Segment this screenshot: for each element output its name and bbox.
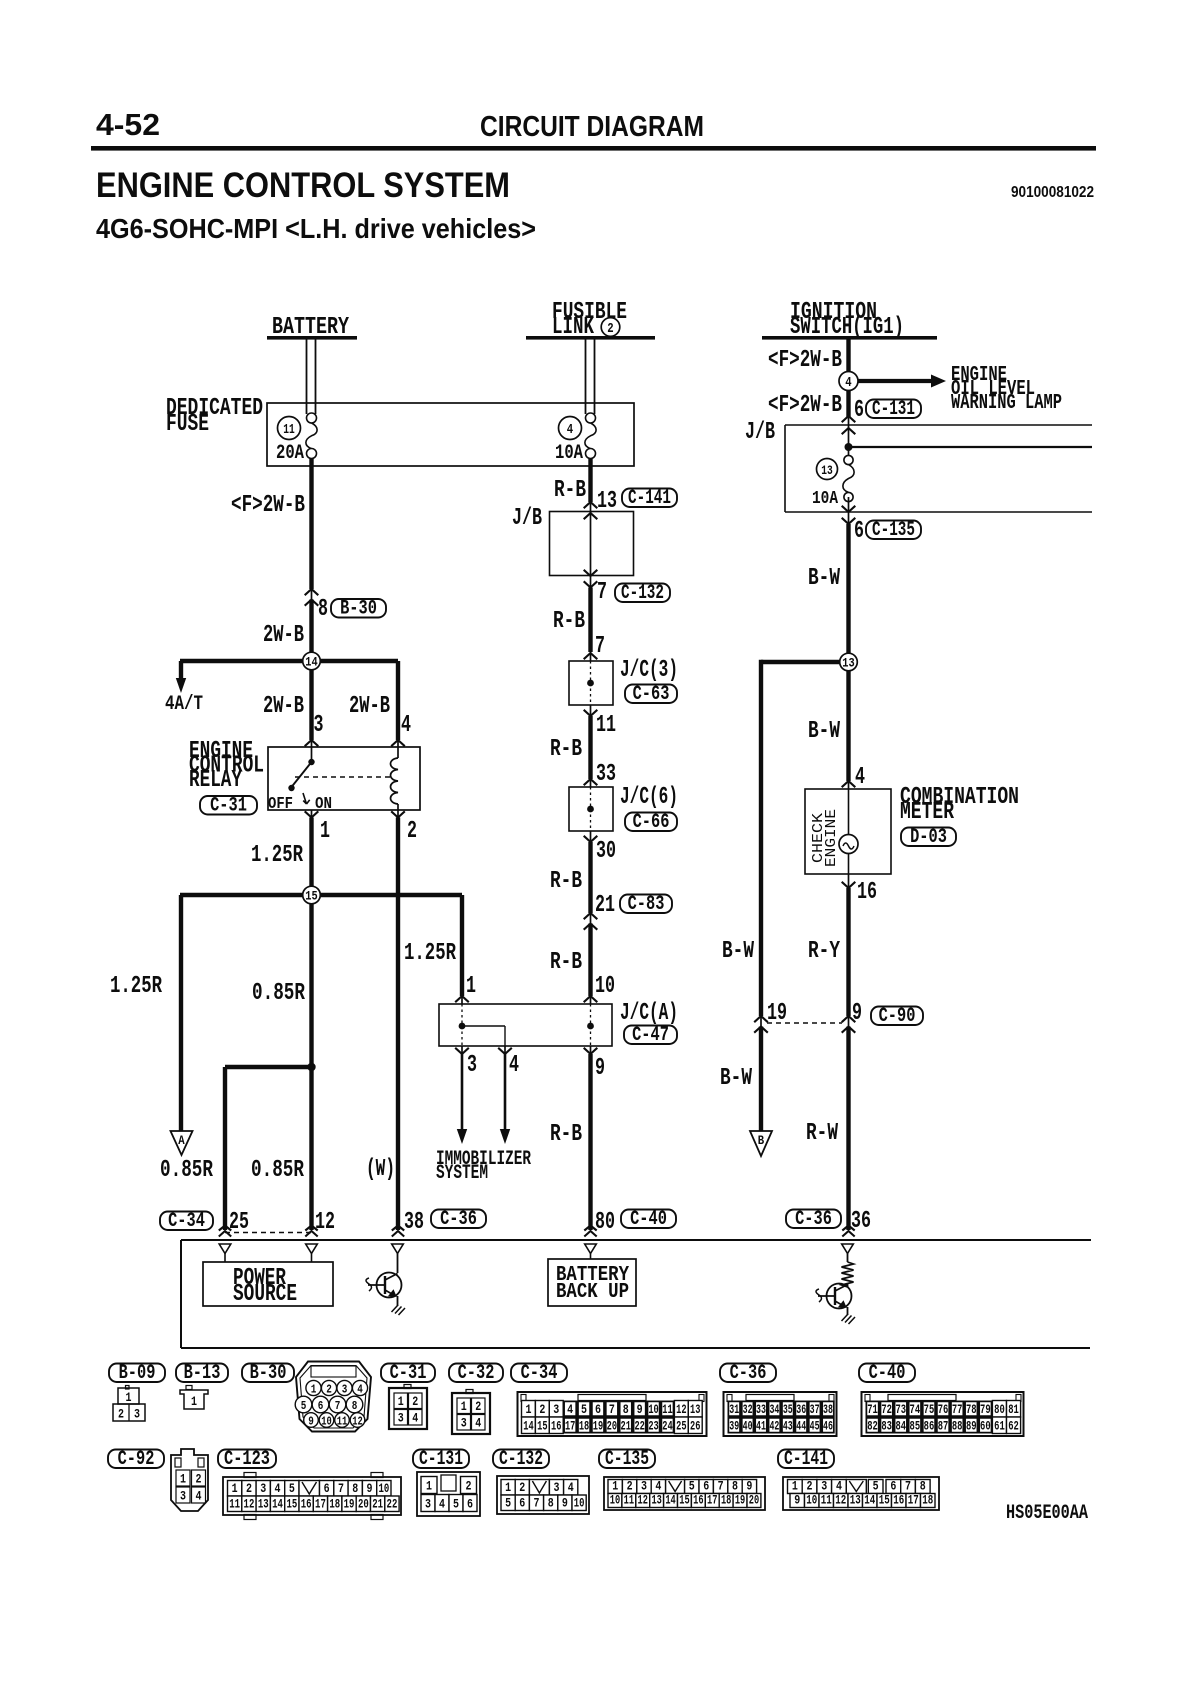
connector C-131 reference [413,1450,469,1469]
connector B-30 pinout [296,1362,371,1432]
svg-text:13: 13 [651,1493,662,1508]
svg-text:13: 13 [850,1493,861,1508]
svg-text:5: 5 [505,1496,511,1511]
svg-text:13: 13 [842,656,855,671]
svg-text:89: 89 [966,1419,977,1434]
svg-text:A: A [178,1133,185,1148]
svg-text:2: 2 [475,1399,481,1414]
svg-text:38: 38 [823,1402,833,1417]
svg-text:0.85R: 0.85R [251,1157,304,1184]
joint connector J/C(3) C-63 [584,653,598,659]
svg-text:18: 18 [721,1493,732,1508]
svg-text:R-B: R-B [550,949,582,976]
wire 2W-B: fuse 11 to node 14 [309,458,313,589]
svg-text:77: 77 [952,1402,963,1417]
wire 1.25R node 15 to triangle A [179,895,183,1131]
wire to 4A/T with arrow [179,661,183,678]
svg-text:4: 4 [275,1481,281,1496]
svg-text:1: 1 [461,1399,467,1414]
svg-text:C-32: C-32 [458,1362,495,1385]
svg-text:2W-B: 2W-B [349,693,390,720]
ground (pin 38 emitter) [392,1305,406,1315]
connector C-92 pinout [171,1449,208,1511]
svg-text:4: 4 [855,764,865,791]
connector C-32 pinout [466,1390,473,1394]
power source block [224,1254,226,1263]
svg-text:3: 3 [314,712,324,739]
svg-text:90100081022: 90100081022 [1011,184,1094,201]
svg-text:20: 20 [749,1493,760,1508]
svg-text:8: 8 [318,596,328,623]
svg-text:(W): (W) [366,1156,395,1183]
svg-text:42: 42 [769,1419,779,1434]
svg-text:20A: 20A [276,442,304,465]
svg-text:7: 7 [609,1402,615,1417]
wire B-W node 13 to combination meter pin 4 [846,662,850,781]
wire 0.85R branch to ECU pin 25 [223,1067,227,1230]
node 14 [303,652,321,670]
wire B-W: C-135 to node 13 [848,512,850,524]
svg-text:13: 13 [690,1402,701,1417]
svg-text:41: 41 [756,1419,766,1434]
svg-text:C-31: C-31 [210,794,247,817]
connector C-132 reference [493,1450,549,1469]
svg-text:1: 1 [426,1479,432,1494]
wire 1.25R relay pin 2 down to ECU pin 38 [397,810,399,818]
inline connector B-30 pin 8 [305,589,319,595]
svg-text:12: 12 [244,1497,255,1512]
svg-text:7: 7 [718,1479,724,1494]
svg-text:9: 9 [308,1415,314,1429]
svg-text:R-B: R-B [553,608,585,635]
svg-text:1: 1 [612,1479,618,1494]
svg-text:5: 5 [301,1399,307,1413]
svg-text:76: 76 [938,1402,949,1417]
svg-text:10A: 10A [555,442,583,465]
connector C-141 reference [778,1450,834,1469]
svg-text:3: 3 [461,1416,467,1431]
svg-text:1: 1 [466,973,476,1000]
connector C-131 pinout [417,1472,480,1516]
svg-text:4: 4 [567,1402,573,1417]
svg-text:J/B: J/B [745,419,775,446]
svg-text:B-09: B-09 [119,1362,156,1385]
svg-text:86: 86 [924,1419,935,1434]
svg-text:40: 40 [743,1419,753,1434]
node 15 [303,886,321,904]
svg-text:4: 4 [836,1479,842,1494]
svg-text:8: 8 [352,1399,358,1413]
svg-text:5: 5 [453,1497,459,1512]
svg-text:2: 2 [118,1407,124,1422]
svg-text:2: 2 [196,1472,202,1487]
svg-text:4: 4 [412,1411,418,1426]
svg-text:C-135: C-135 [872,519,915,542]
connector C-135 pinout [604,1477,765,1510]
svg-text:CIRCUIT DIAGRAM: CIRCUIT DIAGRAM [480,111,704,143]
svg-text:17: 17 [707,1493,717,1508]
connector C-141 pinout [783,1477,939,1510]
svg-text:METER: METER [900,799,954,826]
svg-text:0.85R: 0.85R [160,1157,213,1184]
svg-text:7: 7 [597,579,607,606]
svg-text:6: 6 [595,1402,601,1417]
wire B-W branch down to C-90 pin 19 [759,660,763,1016]
svg-text:C-141: C-141 [628,487,671,510]
svg-text:5: 5 [689,1479,695,1494]
svg-text:3: 3 [342,1383,348,1397]
svg-text:2: 2 [246,1481,252,1496]
svg-text:C-36: C-36 [730,1362,767,1385]
svg-text:C-92: C-92 [118,1448,155,1471]
svg-text:SOURCE: SOURCE [233,1281,297,1308]
svg-text:4: 4 [845,375,851,391]
svg-text:9: 9 [794,1493,800,1508]
svg-text:4: 4 [196,1489,202,1504]
connector C-132 pinout [497,1476,589,1514]
svg-text:61: 61 [994,1419,1005,1434]
svg-text:81: 81 [1008,1402,1019,1417]
svg-text:2: 2 [607,321,613,337]
ground (pin 36 emitter) [842,1314,856,1324]
svg-text:5: 5 [581,1402,587,1417]
wire 2W-B node 14 to relay pin 4 [396,661,400,740]
svg-text:84: 84 [895,1419,906,1434]
svg-text:8: 8 [732,1479,738,1494]
svg-text:46: 46 [823,1419,833,1434]
svg-text:10: 10 [610,1493,621,1508]
svg-text:9: 9 [746,1479,752,1494]
svg-text:37: 37 [810,1402,820,1417]
svg-text:13: 13 [821,463,833,478]
svg-text:14: 14 [864,1493,875,1508]
svg-text:SYSTEM: SYSTEM [436,1162,488,1185]
svg-text:16: 16 [693,1493,704,1508]
svg-text:2: 2 [466,1479,472,1494]
svg-text:82: 82 [867,1419,878,1434]
connector C-31 reference [381,1364,435,1383]
relay exit chevrons [305,811,319,817]
meter exit pin 16 [842,882,856,888]
svg-text:87: 87 [938,1419,949,1434]
svg-text:4: 4 [567,422,573,438]
wire 0.85R node 15 down to ECU pin 12 [309,895,313,1230]
svg-text:23: 23 [648,1419,659,1434]
svg-text:J/B: J/B [512,505,542,532]
ECU bottom connector labels [160,1212,213,1231]
svg-text:2: 2 [326,1383,332,1397]
node 13 [761,660,849,664]
svg-text:4A/T: 4A/T [165,693,203,716]
svg-text:1: 1 [398,1394,404,1409]
svg-text:72: 72 [881,1402,892,1417]
svg-text:1.25R: 1.25R [110,973,162,1000]
svg-text:C-132: C-132 [621,582,664,605]
transistor Q2 (pin 36 lamp driver) [847,1283,849,1285]
svg-text:15: 15 [537,1419,548,1434]
svg-text:C-63: C-63 [633,683,670,706]
connector C-31 pinout [404,1385,411,1389]
svg-text:8: 8 [352,1481,358,1496]
svg-text:30: 30 [596,838,616,865]
svg-text:14: 14 [305,655,318,670]
svg-text:18: 18 [329,1497,340,1512]
wire R-B: J/C(3) to J/C(6) [590,705,592,716]
connector C-36 pinout [724,1392,837,1436]
svg-text:B-W: B-W [722,938,754,965]
svg-text:R-Y: R-Y [808,938,840,965]
relay coil [397,747,399,758]
svg-text:7: 7 [335,1399,341,1413]
svg-text:34: 34 [769,1402,779,1417]
svg-text:WARNING LAMP: WARNING LAMP [951,392,1062,415]
svg-text:26: 26 [690,1419,701,1434]
svg-text:OFF: OFF [268,795,293,814]
svg-text:11: 11 [229,1497,240,1512]
svg-text:12: 12 [835,1493,846,1508]
svg-text:R-W: R-W [806,1120,838,1147]
svg-text:60: 60 [980,1419,991,1434]
svg-text:C-36: C-36 [795,1208,832,1231]
svg-text:11: 11 [596,712,616,739]
svg-text:24: 24 [662,1419,673,1434]
svg-text:38: 38 [404,1209,424,1236]
svg-text:8: 8 [623,1402,629,1417]
svg-text:19: 19 [593,1419,604,1434]
svg-text:4: 4 [475,1416,481,1431]
relay switch contact [311,747,313,762]
connector C-34 pinout [518,1392,707,1436]
svg-text:R-B: R-B [550,868,582,895]
svg-text:12: 12 [638,1493,649,1508]
svg-text:C-34: C-34 [521,1362,558,1385]
svg-text:R-B: R-B [550,1121,582,1148]
svg-text:1: 1 [505,1480,511,1495]
svg-text:3: 3 [134,1407,140,1422]
connector C-123 pinout [223,1477,401,1515]
svg-text:6: 6 [318,1399,324,1413]
svg-text:5: 5 [289,1481,295,1496]
svg-text:J/C(6): J/C(6) [620,784,678,811]
svg-text:21: 21 [621,1419,632,1434]
fuse 11 20A [278,417,301,440]
svg-text:33: 33 [756,1402,766,1417]
svg-text:4: 4 [655,1479,661,1494]
svg-text:74: 74 [910,1402,921,1417]
svg-text:11: 11 [624,1493,635,1508]
svg-text:83: 83 [881,1419,892,1434]
svg-text:11: 11 [337,1415,348,1429]
svg-text:11: 11 [283,422,295,438]
battery back up block [590,1254,592,1260]
svg-text:C-132: C-132 [499,1448,543,1471]
svg-text:C-131: C-131 [419,1448,463,1471]
svg-text:45: 45 [810,1419,820,1434]
svg-text:C-34: C-34 [168,1210,205,1233]
svg-text:3: 3 [398,1411,404,1426]
node 13 (right) [840,653,858,671]
svg-text:1: 1 [126,1390,132,1405]
wire R-B: J/C(A) pin 9 to ECU pin 80 [590,1046,592,1054]
joint connector J/C(A) C-47 [439,1004,612,1046]
svg-text:17: 17 [565,1419,575,1434]
svg-text:14: 14 [665,1493,676,1508]
svg-text:1.25R: 1.25R [251,842,303,869]
svg-text:2: 2 [519,1480,525,1495]
svg-text:11: 11 [821,1493,832,1508]
svg-text:1: 1 [525,1402,531,1417]
svg-text:33: 33 [596,761,616,788]
svg-text:2: 2 [539,1402,545,1417]
svg-text:71: 71 [867,1402,878,1417]
connector C-40 pinout [862,1392,1024,1436]
svg-text:6: 6 [467,1497,473,1512]
connector C-123 reference [218,1450,276,1469]
svg-text:9: 9 [637,1402,643,1417]
svg-text:7: 7 [338,1481,344,1496]
svg-text:43: 43 [783,1419,793,1434]
svg-text:1: 1 [232,1481,238,1496]
svg-text:88: 88 [952,1419,963,1434]
arrows to immobilizer system [461,1046,463,1054]
svg-text:1: 1 [311,1383,317,1397]
wire R-B: fuse 4 down to J/B C-141 [588,458,592,502]
joint connector J/C(6) C-66 [584,779,598,785]
svg-text:2W-B: 2W-B [263,693,304,720]
svg-text:RELAY: RELAY [189,767,242,794]
connector B-09 pinout [126,1386,130,1390]
svg-text:14: 14 [272,1497,283,1512]
svg-text:16: 16 [893,1493,904,1508]
svg-text:4G6-SOHC-MPI <L.H. drive vehic: 4G6-SOHC-MPI <L.H. drive vehicles> [96,213,536,244]
svg-text:3: 3 [554,1480,560,1495]
svg-text:32: 32 [743,1402,753,1417]
svg-text:3: 3 [641,1479,647,1494]
junction to pin 25 branch [307,1063,315,1071]
svg-text:9: 9 [852,1000,862,1027]
wire: battery double lead down to fuse 11 [306,339,308,414]
wire R-B: J/C(6) to C-83 [590,831,592,842]
svg-text:13: 13 [258,1497,269,1512]
svg-text:C-141: C-141 [784,1448,828,1471]
wire: node 15 horizontal bus [180,893,462,897]
connector B-09 reference [109,1364,165,1383]
wire 1.25R relay pin 1 to node 15 [311,810,313,818]
svg-text:<F>2W-B: <F>2W-B [231,492,305,519]
svg-text:9: 9 [367,1481,373,1496]
svg-text:15: 15 [679,1493,690,1508]
svg-text:20: 20 [607,1419,618,1434]
svg-text:39: 39 [729,1419,739,1434]
connector C-34 reference [511,1364,567,1383]
svg-text:80: 80 [595,1209,615,1236]
svg-text:J/C(3): J/C(3) [620,657,678,684]
svg-text:C-83: C-83 [628,893,665,916]
svg-text:C-47: C-47 [632,1024,669,1047]
connector B-30 reference [242,1364,294,1383]
svg-text:31: 31 [729,1402,739,1417]
wire: ignition switch feed down [846,339,850,417]
ECU pin input triangles [219,1244,231,1254]
svg-text:C-40: C-40 [630,1208,667,1231]
svg-text:C-90: C-90 [879,1005,916,1028]
wire: node 14 horizontal bus [180,659,398,663]
svg-text:<F>2W-B: <F>2W-B [768,392,842,419]
svg-text:1: 1 [191,1394,197,1409]
svg-text:62: 62 [1008,1419,1019,1434]
check engine lamp bulb [839,835,858,854]
wire: fusible link double lead down to fuse 4 [585,339,587,414]
svg-text:2: 2 [627,1479,633,1494]
svg-text:78: 78 [966,1402,977,1417]
svg-text:14: 14 [523,1419,534,1434]
svg-text:2: 2 [807,1479,813,1494]
svg-text:9: 9 [562,1496,568,1511]
svg-text:75: 75 [924,1402,935,1417]
svg-text:9: 9 [595,1055,605,1082]
svg-text:C-131: C-131 [872,398,915,421]
svg-text:6: 6 [519,1496,525,1511]
connector C-135 reference [599,1450,655,1469]
svg-text:6: 6 [703,1479,709,1494]
svg-text:7: 7 [534,1496,540,1511]
svg-text:17: 17 [908,1493,919,1508]
svg-text:C-36: C-36 [440,1208,477,1231]
svg-text:6: 6 [890,1479,896,1494]
svg-text:C-66: C-66 [633,811,670,834]
wire R-Y: meter to C-90 pin 9 [848,874,850,888]
svg-text:1: 1 [792,1479,798,1494]
svg-text:1.25R: 1.25R [404,940,456,967]
svg-text:BACK UP: BACK UP [556,1281,629,1304]
svg-text:36: 36 [796,1402,806,1417]
svg-text:6: 6 [854,518,864,545]
svg-text:B-W: B-W [808,718,840,745]
svg-text:8: 8 [548,1496,554,1511]
svg-text:FUSE: FUSE [166,411,209,438]
svg-text:2: 2 [407,818,417,845]
triangle ref B [750,1131,772,1156]
svg-text:12: 12 [676,1402,687,1417]
connector B-13 reference [176,1364,228,1383]
svg-text:10: 10 [806,1493,817,1508]
svg-text:4: 4 [401,712,411,739]
svg-text:C-135: C-135 [605,1448,649,1471]
svg-text:22: 22 [387,1497,398,1512]
svg-text:3: 3 [467,1052,477,1079]
wire 2W-B node 14 to relay pin 3 [309,661,313,740]
ECU box outline [181,1239,1091,1241]
svg-text:B-30: B-30 [250,1362,287,1385]
J/C(A) exit pins 3 4 9 [455,1048,469,1054]
svg-text:HS05E00AA: HS05E00AA [1006,1502,1088,1525]
header rule [91,146,1096,151]
svg-text:10: 10 [574,1496,585,1511]
svg-text:11: 11 [662,1402,673,1417]
svg-text:4: 4 [509,1052,519,1079]
svg-text:6: 6 [324,1481,330,1496]
connector B-13 pinout [186,1386,192,1390]
wire 1.25R node 15 to J/C(A) pin 1 [460,895,464,996]
svg-text:2W-B: 2W-B [263,622,304,649]
svg-text:85: 85 [910,1419,921,1434]
svg-text:4-52: 4-52 [96,107,160,142]
svg-text:2: 2 [412,1394,418,1409]
svg-text:20: 20 [358,1497,369,1512]
svg-text:3: 3 [260,1481,266,1496]
svg-text:15: 15 [879,1493,890,1508]
svg-text:80: 80 [994,1402,1005,1417]
